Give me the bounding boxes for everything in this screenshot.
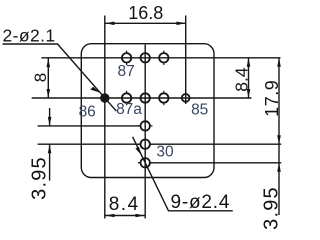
dimension line 8.4 bottom xyxy=(106,215,145,217)
dimension line 8 left xyxy=(47,58,49,98)
hole middle row 2 xyxy=(141,93,150,102)
arrow 3.95L up to hole B line xyxy=(48,144,52,153)
centerline top hole row xyxy=(41,57,280,59)
svg-text:2-ø2.1: 2-ø2.1 xyxy=(3,25,56,45)
ticks hole 87 xyxy=(126,51,128,54)
ticks hole 87a xyxy=(126,91,128,94)
hole middle row 3 xyxy=(159,93,168,102)
extension line hole B left xyxy=(38,143,140,145)
extension line hole C right xyxy=(150,162,281,164)
arrow 8.4R bottom xyxy=(247,89,251,98)
arrow 8 top xyxy=(47,58,51,67)
dimension line 3.95 left upper xyxy=(49,108,51,126)
arrow 16.8 right xyxy=(177,22,186,26)
svg-text:3.95: 3.95 xyxy=(261,186,283,230)
leader 9-d2.4 xyxy=(133,137,233,211)
svg-text:86: 86 xyxy=(79,104,96,121)
ticks hole B xyxy=(138,143,141,145)
arrow 17.9 top xyxy=(277,58,281,67)
svg-text:17.9: 17.9 xyxy=(262,80,282,117)
svg-text:87a: 87a xyxy=(116,101,142,118)
hole top row 3 xyxy=(159,53,168,62)
extension line through pin 86 (16.8 left / 8.4 left) xyxy=(104,16,106,219)
center tick marks xyxy=(127,51,164,163)
arrow 8.4 bottom left xyxy=(106,214,115,218)
hole 86 filled xyxy=(100,93,109,102)
arrow 3.95R up to hole C line xyxy=(277,163,281,172)
arrow 16.8 left xyxy=(106,22,115,26)
arrow 17.9 bottom xyxy=(277,135,281,144)
ticks hole A xyxy=(138,125,141,127)
svg-text:8.4: 8.4 xyxy=(109,194,140,215)
holes: top row xyxy=(122,53,190,167)
dimension line 17.9 / 3.95 right xyxy=(278,58,280,215)
ticks hole top row 3 xyxy=(163,51,165,54)
arrow 3.95L down to hole A line xyxy=(48,117,52,126)
svg-text:8.4: 8.4 xyxy=(231,67,251,92)
arrow leader 9-d2.4 xyxy=(135,147,141,156)
dimension line 3.95 left lower xyxy=(49,144,51,180)
hole 30 (column B) xyxy=(141,140,150,149)
svg-text:16.8: 16.8 xyxy=(128,3,163,23)
extension line hole A left xyxy=(38,125,140,127)
extension line hole B right xyxy=(150,143,281,145)
hole 87a (middle row 1) xyxy=(122,93,131,102)
hole 87 (top row 1) xyxy=(122,53,131,62)
extension line through pin 85 (16.8 right) xyxy=(185,16,187,105)
arrow leader 2-d2.1 xyxy=(90,87,100,93)
hole C column xyxy=(141,158,150,167)
arrow 8.4R top xyxy=(247,58,251,67)
centerline middle hole row xyxy=(32,97,252,99)
ticks hole C xyxy=(138,162,141,164)
hole top row 2 xyxy=(141,53,150,62)
dimension line 8.4 right xyxy=(248,58,250,98)
hole 85 xyxy=(182,94,190,102)
svg-text:85: 85 xyxy=(191,102,208,119)
hole A column xyxy=(141,121,150,130)
svg-text:30: 30 xyxy=(156,144,174,161)
arrow 8.4 bottom right xyxy=(136,214,145,218)
dimension line 16.8 xyxy=(106,22,186,24)
arrow 8 bottom xyxy=(47,89,51,98)
vertical centerline through middle column xyxy=(144,45,146,219)
svg-text:8: 8 xyxy=(31,73,50,82)
svg-text:9-ø2.4: 9-ø2.4 xyxy=(171,192,231,213)
relay body outline xyxy=(81,44,214,178)
svg-text:3.95: 3.95 xyxy=(29,156,51,200)
svg-text:87: 87 xyxy=(117,63,134,80)
leader 2-d2.1 xyxy=(3,44,117,111)
ticks hole middle row 3 xyxy=(163,91,165,94)
